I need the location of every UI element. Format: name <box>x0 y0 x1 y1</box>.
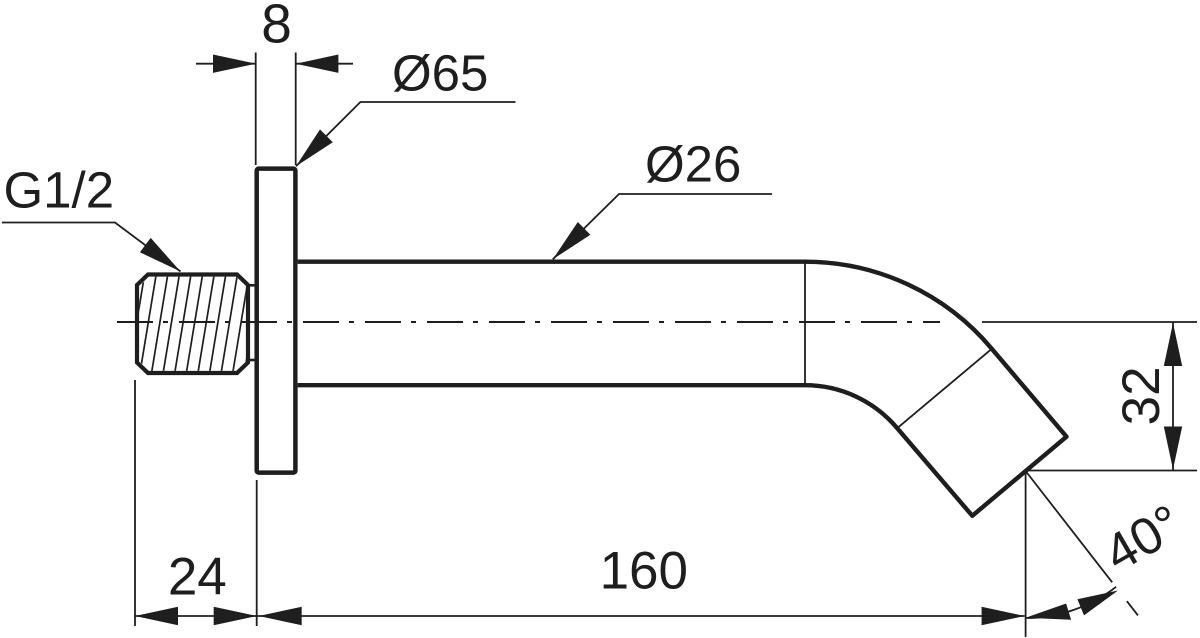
dimension 8: extension line left <box>255 53 257 166</box>
dimension 24: left arrow <box>135 607 178 625</box>
dimension 8: right arrow <box>296 55 339 73</box>
wall flange Ø65 <box>257 169 296 473</box>
thread nipple G1/2 outline <box>137 275 248 374</box>
thread hatching <box>128 272 261 375</box>
tube joint line at bend end <box>897 349 992 428</box>
dimension 32: bottom arrow <box>1164 427 1182 470</box>
dimension 8: left arrow <box>213 55 256 73</box>
thread neck lower edge <box>249 359 256 362</box>
label Ø65: leader line <box>296 102 516 166</box>
tube joint line at bend start <box>804 262 806 386</box>
spout tube body outline <box>298 262 1067 516</box>
outlet vertical extension line <box>1025 471 1027 637</box>
label G1/2: arrow <box>140 238 181 272</box>
dimension 32: top arrow <box>1164 323 1182 366</box>
svg-text:160: 160 <box>600 541 688 600</box>
dimension 160: left arrow <box>259 607 302 625</box>
svg-text:24: 24 <box>168 547 227 606</box>
label Ø65: arrow <box>296 129 333 166</box>
dimension 32: extension line top (centerline level) <box>982 321 1197 323</box>
svg-text:Ø26: Ø26 <box>645 135 741 192</box>
dimension 40deg: lower arrow <box>1026 604 1072 620</box>
dimension 8: extension line right <box>295 53 297 166</box>
dimension 24/160: shared extension line <box>256 480 258 626</box>
centerline horizontal axis <box>117 321 940 323</box>
dimension 24: right arrow <box>214 607 257 625</box>
svg-text:Ø65: Ø65 <box>392 45 488 102</box>
svg-text:G1/2: G1/2 <box>4 162 115 219</box>
dimension 8: dimension line right segment <box>296 63 353 65</box>
label Ø26: arrow <box>553 222 591 259</box>
label G1/2: leader line <box>2 223 181 272</box>
dimension 32: extension line bottom (outlet level) <box>1026 470 1197 472</box>
dimension 160: right arrow <box>982 607 1025 625</box>
dimension 8: dimension line left segment <box>196 63 256 65</box>
svg-text:8: 8 <box>261 0 292 55</box>
thread neck upper edge <box>249 284 256 287</box>
svg-text:32: 32 <box>1112 366 1171 425</box>
outlet axis dash-dot extension <box>1026 471 1138 616</box>
dimension 32: dimension line <box>1172 322 1174 471</box>
label Ø26: leader line <box>553 194 772 259</box>
dimension 24/160: dimension line <box>135 615 1025 617</box>
dimension 40deg: angle arc <box>1026 587 1117 618</box>
dimension 40deg: upper arrow <box>1077 591 1118 616</box>
dimension 24: extension line left <box>134 380 136 626</box>
